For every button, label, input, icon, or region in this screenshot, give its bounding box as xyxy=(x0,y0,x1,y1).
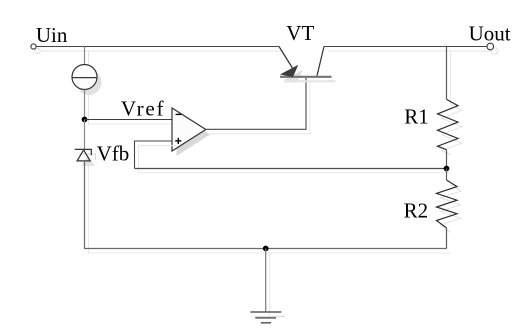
node A (junction dot) xyxy=(82,117,88,123)
wire node A to op-amp inverting input (Vref net) xyxy=(85,120,177,125)
wire op-amp output to transistor base xyxy=(206,78,310,134)
wire node A down to zener xyxy=(84,120,86,150)
wire top rail down to R1 xyxy=(447,47,451,105)
svg-text:Vfb: Vfb xyxy=(97,141,130,165)
svg-text:VT: VT xyxy=(286,21,314,45)
node C (ground junction dot) xyxy=(263,246,269,252)
svg-text:Uout: Uout xyxy=(469,22,511,46)
terminal Uout xyxy=(487,43,498,54)
wire top-left (Uin to VT emitter) xyxy=(36,47,283,52)
transistor VT xyxy=(279,47,336,83)
wire R2 to bottom rail xyxy=(446,228,448,249)
svg-text:R2: R2 xyxy=(404,199,429,223)
wire top-right (VT collector to Uout) xyxy=(324,47,491,52)
wire from top rail down to current source xyxy=(85,47,89,70)
svg-text:Uin: Uin xyxy=(36,23,68,47)
ground xyxy=(250,312,285,323)
wire node B to R2 xyxy=(446,169,448,181)
terminal Uin xyxy=(31,44,40,54)
wire ground stem xyxy=(266,249,270,317)
node B (junction dot R1/R2) xyxy=(444,166,450,172)
zener diode Vfb xyxy=(75,149,96,166)
wire feedback horizontal (node B to op-amp) xyxy=(135,169,451,173)
svg-text:Vref: Vref xyxy=(121,96,165,120)
resistor R1 xyxy=(438,99,463,154)
op-amp U1 xyxy=(172,108,210,156)
svg-text:R1: R1 xyxy=(404,104,429,128)
current source I1 xyxy=(72,65,102,96)
wire current source to node A xyxy=(85,90,89,125)
wire feedback to op-amp non-inverting input xyxy=(135,141,177,173)
resistor R2 xyxy=(437,180,462,232)
wire zener to bottom-left corner and bottom rail xyxy=(85,161,451,253)
wire R1 to node B xyxy=(446,150,448,169)
